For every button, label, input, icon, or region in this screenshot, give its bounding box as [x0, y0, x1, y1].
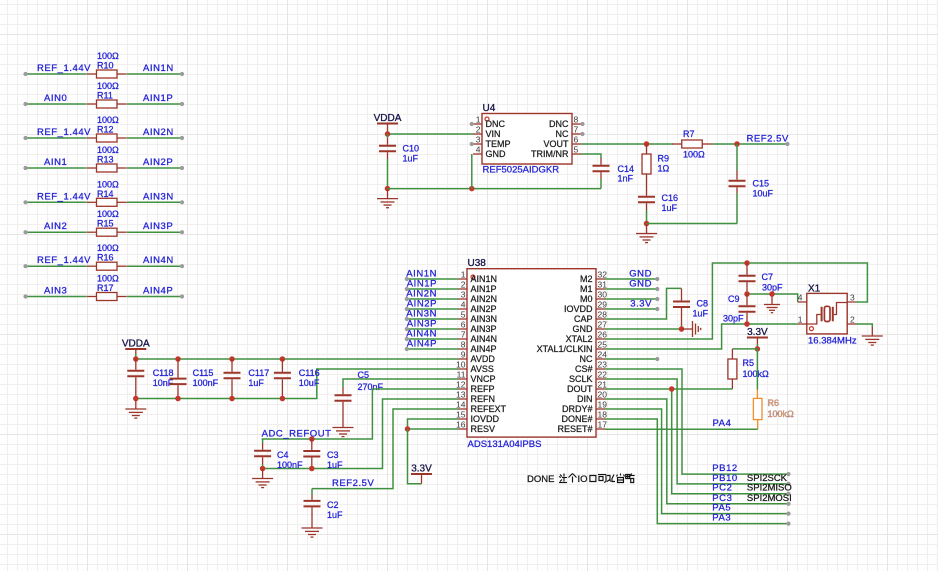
svg-text:100nF: 100nF [193, 378, 219, 388]
svg-text:ADC_REFOUT: ADC_REFOUT [262, 429, 332, 440]
svg-text:C10: C10 [403, 144, 420, 154]
svg-text:AIN1: AIN1 [44, 157, 67, 168]
wire crystal pin2 to ground [856, 324, 872, 327]
svg-text:30pF: 30pF [762, 283, 783, 293]
wire VDDA stem to node [387, 131, 389, 134]
U38 pin 26 XTAL2 [596, 338, 605, 340]
svg-text:C15: C15 [753, 179, 770, 189]
U38 pin 9 AVDD [458, 358, 467, 360]
wire AVSS pin10 to gnd rail [136, 369, 458, 399]
wire C16 to gnd node [646, 210, 648, 224]
svg-text:SPI2MOSI: SPI2MOSI [747, 493, 792, 504]
ground below C10 [377, 190, 398, 208]
wire RESET# pin17 to R6 / PA4 [605, 428, 758, 430]
wire end dot right AIN4P [180, 294, 184, 298]
svg-text:AIN4P: AIN4P [407, 339, 437, 350]
svg-text:3.3V: 3.3V [411, 464, 432, 475]
wire end dot left REF_1.44V [23, 72, 27, 76]
svg-text:VIN: VIN [486, 129, 501, 139]
svg-text:X1: X1 [808, 284, 821, 295]
svg-text:10: 10 [456, 360, 466, 370]
svg-text:AVDD: AVDD [471, 354, 496, 364]
svg-text:5: 5 [574, 145, 579, 155]
U38 pin 4 AIN2P [458, 308, 467, 310]
wire net AIN1P to U38 pin 2 [407, 288, 458, 290]
U38 pin-1 marker circle [471, 275, 475, 279]
svg-text:PA4: PA4 [713, 418, 732, 429]
wire end dot PC3 [786, 502, 790, 506]
wire DRDY# to PA5 [605, 409, 789, 514]
svg-text:100Ω: 100Ω [97, 209, 119, 219]
svg-text:REF_1.44V: REF_1.44V [37, 127, 91, 138]
junction C117 bottom [229, 396, 235, 402]
capacitor C4 [254, 443, 271, 464]
wire VNCP pin11 to C5 [343, 379, 458, 387]
U38 pin 13 REFN [458, 398, 467, 400]
svg-text:100Ω: 100Ω [97, 274, 119, 284]
resistor R10 [87, 70, 127, 78]
svg-text:M0: M0 [580, 294, 593, 304]
U38 pin 29 IOVDD [596, 308, 605, 310]
junction C16 / C15 rail [644, 221, 650, 227]
crystal X1 16.384MHz [807, 293, 847, 334]
svg-text:R13: R13 [97, 155, 114, 165]
U38 pin 17 RESET# [596, 428, 605, 430]
U38 pin 3 AIN2N [458, 298, 467, 300]
wire IOVDD pin15 down [408, 419, 459, 429]
svg-text:AIN0: AIN0 [44, 93, 67, 104]
U38 pin 31 M1 [596, 288, 605, 290]
wire R7 to REF2.5V [712, 143, 788, 145]
U38 pin 27 GND [596, 328, 605, 330]
svg-text:31: 31 [598, 280, 608, 290]
wire end dot AIN4P [405, 347, 409, 351]
svg-text:NC: NC [556, 129, 569, 139]
U38 pin 25 XTAL1/CLKIN [596, 348, 605, 350]
svg-text:100Ω: 100Ω [97, 179, 119, 189]
wire REFEXT pin14 to REF2.5V rail [312, 409, 458, 489]
U38 pin 14 REFEXT [458, 408, 467, 410]
svg-text:1uF: 1uF [327, 460, 343, 470]
U38 pin 22 SCLK [596, 378, 605, 380]
svg-text:AIN3P: AIN3P [143, 221, 173, 232]
wire end dot left AIN1 [23, 166, 27, 170]
wire end dot pin 31 [655, 287, 659, 291]
svg-text:8: 8 [461, 340, 466, 350]
svg-text:1uF: 1uF [693, 309, 709, 319]
svg-text:AIN4N: AIN4N [143, 255, 174, 266]
svg-text:5: 5 [461, 310, 466, 320]
svg-text:IOVDD: IOVDD [471, 414, 500, 424]
svg-text:AIN1N: AIN1N [143, 63, 174, 74]
svg-text:R6: R6 [768, 398, 780, 408]
svg-text:1uF: 1uF [327, 510, 343, 520]
capacitor C3 [303, 439, 320, 469]
svg-text:C16: C16 [662, 193, 679, 203]
svg-text:DNC: DNC [549, 119, 569, 129]
wire net AIN3P to U38 pin 6 [407, 328, 458, 330]
wire end dot left AIN0 [23, 102, 27, 106]
ground sideways at U38 GND [685, 321, 701, 337]
svg-text:100Ω: 100Ω [97, 115, 119, 125]
resistor R11 [87, 100, 127, 108]
wire end dot left AIN2 [23, 230, 27, 234]
svg-text:28: 28 [598, 310, 608, 320]
U4 pin3 TEMP unconnected dot [470, 142, 474, 146]
wire R10 to AIN1N [127, 73, 182, 75]
svg-text:C115: C115 [193, 368, 214, 378]
wire end dot pin 30 [655, 297, 659, 301]
svg-text:PA3: PA3 [712, 513, 731, 524]
wire REF_1.44V to R16 [26, 265, 87, 267]
svg-text:100kΩ: 100kΩ [743, 369, 770, 379]
capacitor C116 [274, 359, 291, 399]
svg-text:32: 32 [598, 270, 608, 280]
wire REF_1.44V to R12 [26, 137, 87, 139]
svg-text:12: 12 [456, 380, 466, 390]
power flag VDDA at cap bank [125, 348, 146, 350]
svg-text:R9: R9 [658, 154, 670, 164]
wire end dot NC [655, 357, 659, 361]
wire SCLK to PB10 [605, 379, 789, 484]
wire end dot PB12 [786, 472, 790, 476]
svg-text:CS#: CS# [575, 364, 593, 374]
U4 pin 4 GND [473, 153, 482, 155]
resistor R14 [87, 198, 127, 206]
resistor R13 [87, 164, 127, 172]
svg-text:3: 3 [850, 293, 855, 303]
U38 pin 6 AIN3P [458, 328, 467, 330]
wire end dot REF2.5V [785, 142, 789, 146]
cjk glyph lue [626, 474, 635, 483]
svg-text:22: 22 [598, 370, 608, 380]
wire C14 to gnd rail [600, 179, 602, 189]
svg-text:AIN2: AIN2 [44, 221, 67, 232]
svg-text:3.3V: 3.3V [747, 327, 768, 338]
svg-text:16.384MHz: 16.384MHz [808, 336, 857, 347]
cjk glyph kou [590, 476, 596, 482]
capacitor C15 [729, 170, 746, 193]
wire end dot PA5 [786, 511, 790, 515]
wire end dot AIN1N [405, 277, 409, 281]
svg-text:REF2.5V: REF2.5V [747, 134, 790, 145]
wire DOUT to PC2 [605, 389, 789, 494]
wire C15 to gnd rail [736, 193, 738, 224]
wire R16 to AIN4N [127, 265, 182, 267]
wire end dot AIN1P [405, 287, 409, 291]
svg-text:REFN: REFN [471, 394, 496, 404]
U38 pin 2 AIN1P [458, 288, 467, 290]
svg-text:RESV: RESV [471, 424, 496, 434]
junction C115 bottom [175, 396, 181, 402]
wire end dot AIN3P [405, 327, 409, 331]
svg-text:R15: R15 [97, 219, 114, 229]
capacitor C115 [170, 359, 187, 399]
svg-text:TEMP: TEMP [486, 139, 511, 149]
U4 pin7 NC unconnected dot [580, 132, 584, 136]
svg-text:CAP: CAP [574, 314, 593, 324]
capacitor C9 [739, 294, 756, 324]
wire ADC_REFOUT to C4 [262, 439, 264, 443]
wire 3.3V stem [756, 344, 758, 349]
wire R12 to AIN2N [127, 137, 182, 139]
resistor R16 [87, 262, 127, 270]
wire U38 pin 30 [605, 298, 657, 300]
U4 pin1 DNC unconnected dot [470, 122, 474, 126]
cjk glyph yi [607, 475, 615, 482]
svg-text:R7: R7 [683, 129, 695, 139]
capacitor C118 [127, 359, 144, 399]
svg-text:13: 13 [456, 390, 466, 400]
wire U38 pin 29 [605, 308, 657, 310]
svg-text:VDDA: VDDA [374, 113, 402, 124]
wire R5 bottom to DOUT net [672, 388, 733, 390]
junction DOUT / R5 [669, 386, 675, 392]
svg-text:AIN3P: AIN3P [471, 324, 497, 334]
svg-text:C14: C14 [618, 164, 635, 174]
U4 pin 3 TEMP [473, 143, 482, 145]
svg-text:XTAL2: XTAL2 [566, 334, 593, 344]
capacitor C14 [593, 158, 610, 179]
wire end dot pin 32 [655, 277, 659, 281]
wire rail to C2 [311, 489, 313, 495]
U4 pin 6 VOUT [572, 143, 581, 145]
svg-text:21: 21 [598, 380, 608, 390]
wire VOUT to R7 [581, 143, 673, 145]
resistor R7 [672, 140, 712, 148]
wire 3.3V node down to R6 [756, 349, 758, 390]
power flag 3.3V at R5 [747, 337, 768, 339]
U4 pin8 DNC unconnected dot [580, 122, 584, 126]
U38 pin 20 DIN [596, 398, 605, 400]
wire end dot PB10 [786, 482, 790, 486]
wire REF_1.44V to R10 [26, 73, 87, 75]
svg-text:REF_1.44V: REF_1.44V [37, 63, 91, 74]
svg-text:3.3V: 3.3V [630, 299, 652, 310]
svg-text:16: 16 [456, 420, 466, 430]
junction C118 top [133, 356, 139, 362]
svg-text:AIN2N: AIN2N [471, 294, 498, 304]
svg-text:REF2.5V: REF2.5V [332, 478, 375, 489]
svg-text:10uF: 10uF [753, 189, 774, 199]
svg-text:R14: R14 [97, 189, 114, 199]
wire XTAL1 pin25 to crystal pin1 [605, 324, 798, 349]
svg-text:GND: GND [629, 279, 652, 290]
wire AIN3 to R17 [26, 296, 87, 298]
junction C116 top [280, 356, 286, 362]
wire end dot left REF_1.44V [23, 136, 27, 140]
junction C116 bottom [280, 396, 286, 402]
svg-text:R17: R17 [97, 283, 114, 293]
wire C7/C9 node to crystal pin4 [747, 294, 798, 302]
svg-text:2: 2 [461, 280, 466, 290]
wire U38 pin 31 [605, 288, 657, 290]
svg-text:AIN1N: AIN1N [471, 274, 498, 284]
ground at C7/C9 node [764, 297, 780, 313]
wire net AIN2P to U38 pin 4 [407, 308, 458, 310]
wire end dot right AIN4N [180, 264, 184, 268]
ground below C2 [302, 519, 323, 537]
U38 pin 19 DRDY# [596, 408, 605, 410]
svg-text:26: 26 [598, 330, 608, 340]
U38 pin 30 M0 [596, 298, 605, 300]
svg-text:100kΩ: 100kΩ [768, 409, 795, 419]
svg-text:3: 3 [461, 290, 466, 300]
ground below C118 [125, 400, 146, 418]
wire end dot right AIN3N [180, 200, 184, 204]
3.3V flag stem [421, 474, 423, 484]
svg-text:U38: U38 [468, 258, 487, 269]
VDDA flag stem [135, 349, 137, 354]
svg-text:NC: NC [580, 354, 593, 364]
resistor R12 [87, 134, 127, 142]
wire end dot right AIN1P [180, 102, 184, 106]
svg-text:IO: IO [578, 474, 588, 485]
junction C7 top [744, 260, 750, 266]
U38 pin 28 CAP [596, 318, 605, 320]
wire end dot AIN2N [405, 297, 409, 301]
svg-text:4: 4 [798, 293, 803, 303]
U38 pin 12 REFP [458, 388, 467, 390]
U38 pin 21 DOUT [596, 388, 605, 390]
svg-text:100Ω: 100Ω [97, 81, 119, 91]
junction C115 top [175, 356, 181, 362]
svg-text:REF_1.44V: REF_1.44V [37, 191, 91, 202]
wire R17 to AIN4P [127, 296, 182, 298]
wire end dot right AIN2N [180, 136, 184, 140]
cjk glyph zhe [559, 474, 567, 483]
svg-text:19: 19 [598, 400, 608, 410]
svg-text:AIN3: AIN3 [44, 286, 67, 297]
wire 3.3V node to R5 top [732, 348, 757, 350]
svg-text:C118: C118 [153, 368, 174, 378]
wire end dot PC2 [786, 492, 790, 496]
svg-text:1uF: 1uF [248, 378, 264, 388]
svg-text:GND: GND [573, 324, 594, 334]
svg-text:C9: C9 [728, 294, 740, 304]
wire end dot PA3 [786, 522, 790, 526]
svg-text:R16: R16 [97, 253, 114, 263]
wire AIN1 to R13 [26, 167, 87, 169]
capacitor C7 [739, 263, 756, 294]
svg-text:ADS131A04IPBS: ADS131A04IPBS [468, 439, 542, 450]
svg-text:REFP: REFP [471, 384, 495, 394]
svg-text:2: 2 [476, 125, 481, 135]
svg-text:DNC: DNC [486, 119, 506, 129]
svg-text:AVSS: AVSS [471, 364, 494, 374]
svg-text:C4: C4 [277, 450, 289, 460]
svg-text:R5: R5 [743, 358, 755, 368]
cjk glyph sheng [617, 474, 625, 483]
svg-text:R12: R12 [97, 125, 114, 135]
ground below C4 [252, 470, 273, 488]
svg-text:C5: C5 [358, 370, 370, 380]
svg-text:29: 29 [598, 300, 608, 310]
U38 pin 23 CS# [596, 368, 605, 370]
svg-text:C7: C7 [762, 272, 774, 282]
svg-text:C8: C8 [697, 299, 709, 309]
junction C3 bottom [309, 466, 315, 472]
wire U38 pin27 GND [605, 328, 682, 330]
svg-text:100Ω: 100Ω [683, 150, 705, 160]
ground below C16 [636, 225, 657, 243]
wire end dot pin 29 [655, 307, 659, 311]
wire C4 to rail [262, 464, 264, 469]
resistor R17 [87, 293, 127, 301]
wire junction to 3.3V stem [408, 429, 422, 484]
U38 pin 8 AIN4P [458, 348, 467, 350]
svg-text:1: 1 [798, 315, 803, 325]
resistor R5 [728, 359, 737, 379]
wire VDDA to U4 VIN [388, 133, 474, 135]
svg-text:AIN2P: AIN2P [143, 157, 173, 168]
svg-text:C117: C117 [248, 368, 269, 378]
junction IOVDD / RESV [405, 426, 411, 432]
svg-text:11: 11 [457, 370, 466, 380]
U4 pin 1 DNC [473, 123, 482, 125]
capacitor C5 [335, 387, 352, 409]
svg-text:17: 17 [598, 420, 608, 430]
U38 pin 32 M2 [596, 278, 605, 280]
cjk glyph ke [598, 475, 606, 483]
resistor R6 (orange) [753, 398, 762, 419]
wire RESV pin16 [408, 428, 459, 430]
svg-text:VDDA: VDDA [122, 339, 150, 350]
wire net AIN2N to U38 pin 3 [407, 298, 458, 300]
svg-text:2: 2 [850, 315, 855, 325]
wire net AIN4N to U38 pin 7 [407, 338, 458, 340]
U38 pin 5 AIN3N [458, 318, 467, 320]
U38 pin 10 AVSS [458, 368, 467, 370]
resistor R15 [87, 228, 127, 236]
svg-text:1Ω: 1Ω [658, 164, 670, 174]
svg-text:6: 6 [574, 135, 579, 145]
cjk glyph ge [569, 474, 577, 483]
U4 pin 7 NC [572, 133, 581, 135]
svg-text:DOUT: DOUT [567, 384, 593, 394]
resistor R9 [642, 154, 651, 174]
svg-text:1: 1 [476, 115, 481, 125]
wire end dot left REF_1.44V [23, 200, 27, 204]
svg-text:14: 14 [456, 400, 466, 410]
ground at crystal pin2 [862, 327, 883, 345]
wire end dot left REF_1.44V [23, 264, 27, 268]
junction C3 top [309, 436, 315, 442]
svg-text:4: 4 [461, 300, 466, 310]
svg-text:30pF: 30pF [723, 314, 744, 324]
wire end dot right AIN3P [180, 230, 184, 234]
svg-text:IOVDD: IOVDD [564, 304, 593, 314]
svg-text:XTAL1/CLKIN: XTAL1/CLKIN [537, 344, 593, 354]
svg-text:AIN1P: AIN1P [471, 284, 497, 294]
junction VDDA / C10 [385, 131, 391, 137]
U4 pin-1 marker circle [485, 117, 489, 121]
svg-text:U4: U4 [483, 103, 496, 114]
svg-text:25: 25 [598, 340, 608, 350]
wire gnd rail to C15 [647, 223, 738, 225]
svg-text:AIN2N: AIN2N [143, 127, 174, 138]
wire TRIM/NR to C14 [581, 154, 601, 158]
wire U38 pin 32 [605, 278, 657, 280]
wire AIN0 to R11 [26, 103, 87, 105]
svg-text:REF_1.44V: REF_1.44V [37, 255, 91, 266]
svg-text:TRIM/NR: TRIM/NR [531, 149, 569, 159]
svg-text:100Ω: 100Ω [97, 243, 119, 253]
X1 crystal glyph [808, 303, 847, 325]
wire R14 to AIN3N [127, 201, 182, 203]
VDDA flag stem [387, 124, 389, 132]
wire U38 pin 24 NC [605, 358, 657, 360]
